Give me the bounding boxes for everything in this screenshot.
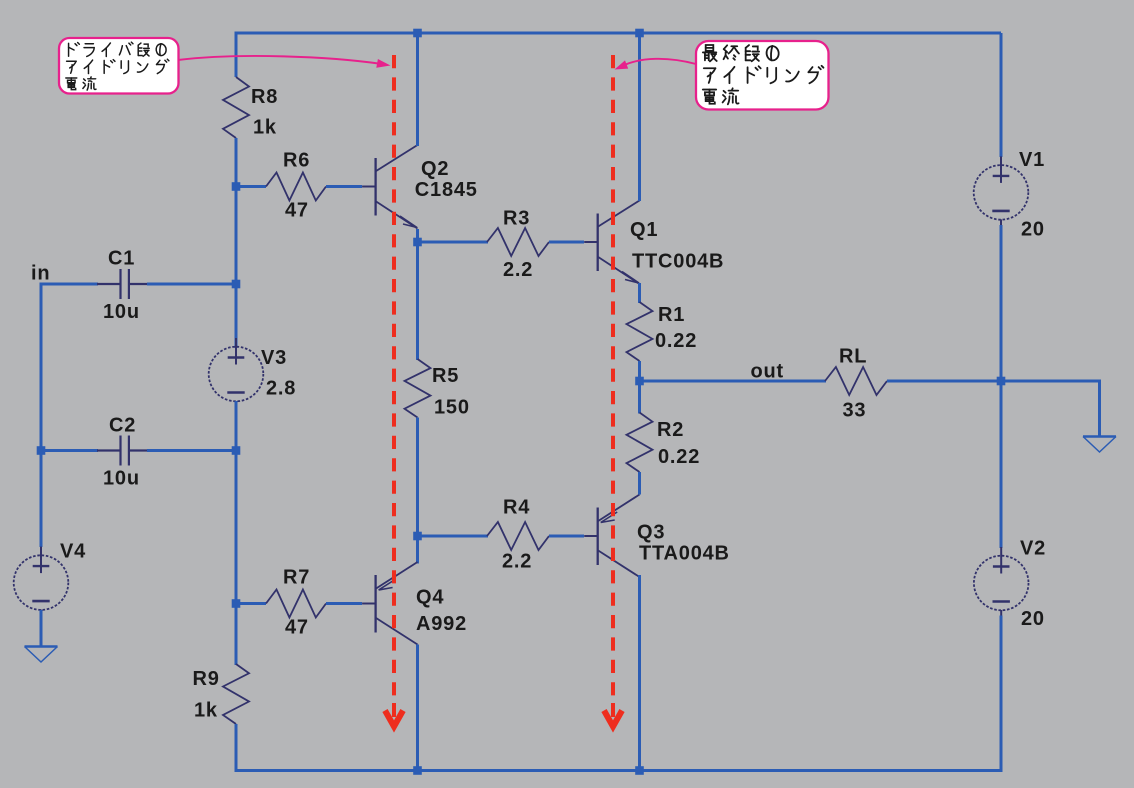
svg-text:TTA004B: TTA004B (639, 543, 730, 565)
junction supply midpoint / out (997, 377, 1006, 386)
wire midpoint to V2 (1000, 381, 1003, 548)
wire R1 to out node (638, 361, 641, 381)
svg-text:TTC004B: TTC004B (632, 251, 724, 273)
resistor R9 (223, 664, 249, 724)
svg-text:10u: 10u (103, 301, 140, 323)
svg-text:V2: V2 (1020, 538, 1046, 560)
junction C2 / V3 bottom node (232, 446, 241, 455)
wire R4 to Q3 base (549, 535, 584, 538)
junction bottom rail / output column (635, 766, 644, 775)
svg-text:RL: RL (839, 346, 867, 368)
wire B2 to R7 (236, 602, 266, 605)
ground right (output return) (1083, 437, 1116, 453)
wire D2 to R4 (418, 535, 489, 538)
wire R6 to Q2 base (326, 185, 362, 188)
junction C1 / V3 top node (232, 280, 241, 289)
resistor R4 (487, 522, 549, 550)
measurement arrow driver-stage idling current (red dashed) (385, 55, 403, 727)
wire V2 to bottom rail (1000, 616, 1003, 771)
wire D2 to Q4 emitter (416, 536, 419, 564)
svg-text:R6: R6 (283, 150, 310, 172)
wire top rail to Q2 collector (416, 33, 419, 146)
resistor R6 (266, 173, 326, 201)
wire V3 to C2 node (235, 401, 238, 451)
transistor Q4 (PNP A992) (362, 562, 417, 645)
capacitor C1 body (97, 269, 153, 299)
wire B2 to R9 (235, 604, 238, 666)
junction in column / C2 (37, 446, 46, 455)
svg-text:V3: V3 (261, 347, 287, 369)
svg-text:20: 20 (1021, 219, 1045, 241)
svg-text:Q2: Q2 (421, 158, 449, 180)
wire B1 to R6 (236, 185, 266, 188)
svg-text:150: 150 (434, 397, 470, 419)
wire V4 to ground (40, 610, 43, 647)
ground below V4 (25, 647, 58, 663)
wire in column down (40, 283, 43, 453)
wire bottom supply rail (235, 769, 1003, 772)
svg-text:1k: 1k (194, 700, 218, 722)
wire to V4 (40, 451, 43, 548)
wire Q2 emitter to node D1 (416, 229, 419, 243)
wire out node to R2 (638, 381, 641, 414)
junction top rail / driver column (413, 29, 422, 38)
svg-text:R7: R7 (283, 567, 310, 589)
transistor Q1 (NPN TTC004B) (584, 201, 639, 285)
wire Q3 collector to bottom rail (638, 575, 641, 771)
callout 1 text line 2 (アイドリング) (67, 59, 169, 73)
svg-text:2.8: 2.8 (266, 378, 296, 400)
callout 2 text line 2 (アイドリング) (704, 66, 824, 83)
svg-text:Q4: Q4 (416, 587, 444, 609)
resistor RL (825, 367, 887, 395)
junction node out (635, 377, 644, 386)
wire top rail to V1 (1000, 33, 1003, 157)
transistor Q2 (NPN C1845) (362, 145, 417, 229)
svg-text:47: 47 (285, 200, 309, 222)
voltage source V3 (209, 338, 264, 407)
wire R2 to Q3 emitter (638, 472, 641, 495)
wire Q4 collector to bottom rail (416, 645, 419, 771)
callout 2 text line 3 (電流) (703, 88, 739, 104)
wire down to B2 node (235, 451, 238, 604)
callout 1 arrow to left dashed line (178, 56, 391, 68)
svg-text:1k: 1k (253, 117, 277, 139)
wire V1 to midpoint (1000, 225, 1003, 381)
junction node B2 (R7 tap) (232, 599, 241, 608)
wire ground stub down (1098, 381, 1101, 436)
callout 1 text line 1 (ドライバ段の) (69, 42, 167, 56)
wire R7 to Q4 base (326, 602, 362, 605)
wire C2 to node (147, 449, 236, 452)
resistor R2 (627, 413, 653, 473)
svg-text:R5: R5 (432, 365, 459, 387)
wire R8 to node B1 (235, 138, 238, 187)
wire out node to RL (640, 380, 827, 383)
svg-text:R4: R4 (503, 497, 530, 519)
junction node D1 (driver top) (413, 238, 422, 247)
junction node D2 (driver bottom) (413, 532, 422, 541)
wire Q1 emitter to R1 (638, 283, 641, 303)
svg-text:R2: R2 (657, 419, 684, 441)
wire R3 to Q1 base (549, 241, 584, 244)
junction top rail / output column (635, 29, 644, 38)
svg-text:0.22: 0.22 (655, 330, 697, 352)
wire B1 down to C1 node (235, 187, 238, 285)
callout 1 text line 3 (電流) (66, 77, 96, 90)
svg-text:C1845: C1845 (415, 179, 478, 201)
voltage source V4 (14, 547, 69, 616)
capacitor C2 body (97, 436, 153, 466)
svg-text:C1: C1 (108, 248, 135, 270)
callout box: driver-stage idling current (ドライバ段のアイドリング電流) (59, 38, 179, 94)
svg-text:2.2: 2.2 (503, 259, 533, 281)
resistor R8 (223, 77, 249, 138)
svg-text:R3: R3 (503, 208, 530, 230)
resistor R7 (266, 590, 326, 618)
svg-text:47: 47 (285, 617, 309, 639)
wire node to V3 (235, 284, 238, 348)
svg-text:0.22: 0.22 (658, 446, 700, 468)
svg-text:R8: R8 (251, 86, 278, 108)
svg-text:V1: V1 (1019, 149, 1045, 171)
svg-text:C2: C2 (109, 415, 136, 437)
svg-text:R9: R9 (193, 668, 220, 690)
transistor Q3 (PNP TTA004B) (584, 495, 639, 578)
measurement arrow output-stage idling current (red dashed) (604, 55, 622, 727)
svg-text:33: 33 (843, 400, 867, 422)
callout box: output-stage idling current (最終段のアイドリング電流) (696, 41, 829, 110)
wire top supply rail (235, 32, 1002, 35)
wire R9 to bottom rail (235, 724, 238, 772)
wire R8 top (235, 33, 238, 77)
svg-text:in: in (31, 263, 50, 285)
voltage source V1 (974, 156, 1029, 225)
svg-text:2.2: 2.2 (502, 551, 532, 573)
svg-text:Q3: Q3 (637, 522, 665, 544)
resistor R5 (405, 359, 431, 418)
svg-text:V4: V4 (60, 541, 86, 563)
resistor R3 (487, 228, 549, 256)
svg-text:out: out (751, 361, 785, 383)
wire in to C1 (41, 283, 98, 286)
callout 2 arrow to right dashed line (615, 59, 697, 70)
voltage source V2 (974, 547, 1029, 616)
wire RL to ground stub (887, 380, 1101, 383)
wire top rail to Q1 collector (638, 33, 641, 201)
svg-text:Q1: Q1 (630, 219, 658, 241)
wire C1 to node (147, 283, 236, 286)
svg-text:10u: 10u (103, 468, 140, 490)
svg-text:A992: A992 (416, 613, 467, 635)
wire D1 to R5 (416, 242, 419, 360)
wire R5 to node D2 (416, 418, 419, 538)
resistor R1 (627, 302, 653, 361)
junction node B1 (R6 tap) (232, 182, 241, 191)
svg-text:R1: R1 (658, 304, 685, 326)
wire D1 to R3 (418, 241, 489, 244)
svg-text:20: 20 (1021, 608, 1045, 630)
wire in column to C2 (41, 449, 98, 452)
callout 2 text line 1 (最終段の) (703, 45, 779, 61)
junction bottom rail / driver column (413, 766, 422, 775)
